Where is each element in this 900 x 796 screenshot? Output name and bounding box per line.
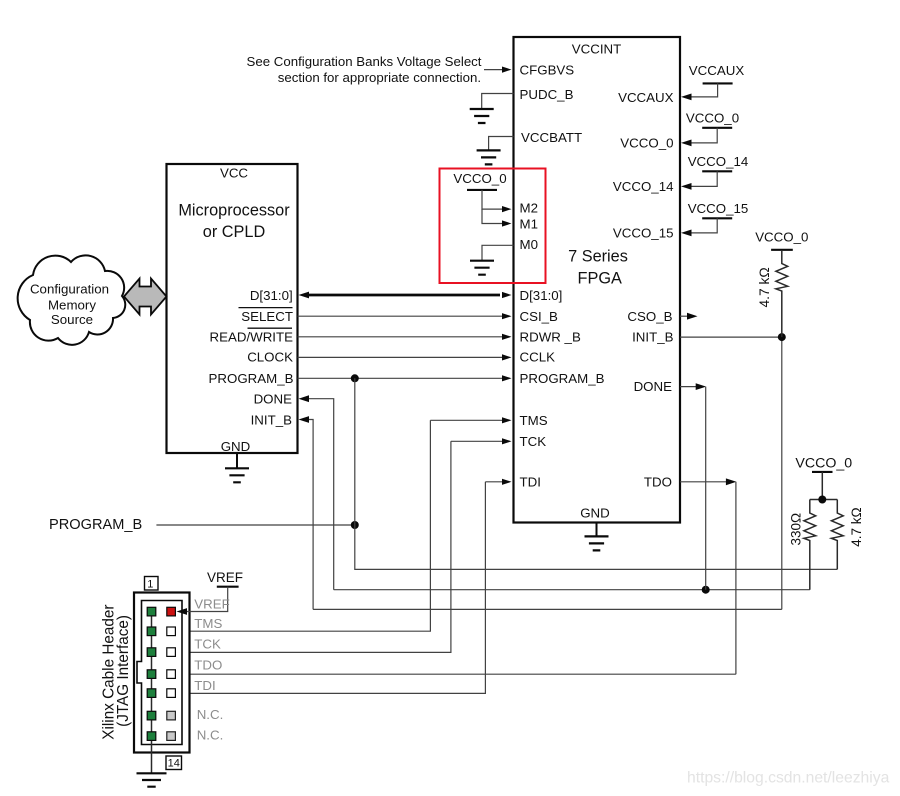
svg-text:RDWR _B: RDWR _B [520,330,581,345]
svg-text:VCCO_0: VCCO_0 [755,230,808,245]
microprocessor U1 [167,164,298,454]
wire PROGRAM_B vertical to 4.7k [355,378,838,569]
svg-text:M1: M1 [520,217,538,232]
svg-text:VCCO_0: VCCO_0 [620,135,673,150]
double arrow cloud to microprocessor [124,279,167,315]
svg-text:Configuration: Configuration [30,282,109,297]
wire CFGBVS arrow [484,67,512,73]
svg-text:VCCAUX: VCCAUX [689,63,745,78]
svg-text:INIT_B: INIT_B [251,412,293,427]
svg-text:VCCO_0: VCCO_0 [795,455,852,471]
pin TDI [167,689,176,698]
resistor R2 330 (DONE pullup) [789,500,816,590]
svg-text:or CPLD: or CPLD [203,223,265,241]
resistor R1 4.7k (INIT_B pullup) [755,230,808,338]
svg-text:Memory: Memory [48,298,96,313]
svg-text:330Ω: 330Ω [789,513,804,546]
svg-text:VCCO_0: VCCO_0 [453,171,506,186]
svg-text:VCCO_15: VCCO_15 [688,201,749,216]
wire ground chain (left pin column) [151,612,153,774]
pin TCK [167,648,176,657]
wire PROGRAM_B external [156,524,354,526]
svg-text:PROGRAM_B: PROGRAM_B [49,517,142,533]
red highlight box (mode pins) [440,169,546,284]
svg-text:VCC: VCC [220,166,248,181]
annotation note [247,54,482,85]
wire M0 to ground [470,245,514,274]
svg-text:CSI_B: CSI_B [520,309,559,324]
svg-text:N.C.: N.C. [197,707,224,722]
svg-text:D[31:0]: D[31:0] [250,288,293,303]
junction INIT_B pullup [778,333,786,341]
svg-text:VCCBATT: VCCBATT [521,130,582,145]
power VCCO_14 [681,154,748,190]
svg-text:SELECT: SELECT [241,309,293,324]
power VCCO_0 (bank 0) [681,110,739,146]
svg-text:D[31:0]: D[31:0] [520,288,563,303]
wire M1 [482,209,512,227]
svg-text:See Configuration Banks Voltag: See Configuration Banks Voltage Select [247,54,482,69]
svg-text:DONE: DONE [254,391,293,406]
svg-text:CFGBVS: CFGBVS [520,62,575,77]
svg-text:FPGA: FPGA [578,269,622,287]
power VCCO_0 (mode pins) [453,171,506,190]
svg-text:1: 1 [147,579,153,591]
svg-text:PROGRAM_B: PROGRAM_B [209,371,294,386]
svg-text:CLOCK: CLOCK [247,350,293,365]
JTAG left pins (GND, green) [147,607,156,740]
wire DONE horizontal to 330 [334,589,810,591]
ground (JTAG) [137,773,167,786]
pin TDO [167,670,176,679]
junction PROGRAM_B tap [351,374,359,382]
svg-text:VCCO_14: VCCO_14 [688,154,749,169]
svg-text:TCK: TCK [520,434,547,449]
svg-text:INIT_B: INIT_B [632,330,674,345]
wire DONE (micro side) [299,395,334,589]
svg-text:PROGRAM_B: PROGRAM_B [520,371,605,386]
wire INIT_B (FPGA side) [680,337,782,609]
cloud configuration memory source [18,255,126,344]
svg-text:PUDC_B: PUDC_B [520,87,574,102]
wire TDI [176,479,512,694]
rotated header label [101,604,132,739]
power VCCO_0 (DONE/PROG pullups) [795,455,852,499]
svg-text:TDO: TDO [194,657,222,672]
wire TMS [176,417,512,631]
pin VREF (red) [167,607,176,616]
svg-text:VREF: VREF [207,570,243,585]
svg-text:(JTAG Interface): (JTAG Interface) [115,615,132,727]
wire INIT_B (micro side) [299,416,314,609]
JTAG header J1 [134,593,190,753]
svg-text:section for appropriate connec: section for appropriate connection. [278,70,481,85]
svg-text:14: 14 [168,758,180,770]
svg-text:TDI: TDI [520,475,541,490]
wire CSO_B output arrow [680,313,698,320]
svg-text:N.C.: N.C. [197,728,224,743]
wire DONE (FPGA side) [680,383,706,590]
wire PROGRAM_B [298,375,512,381]
junction DONE net [702,586,710,594]
junction PROGRAM_B external [351,521,359,529]
svg-text:VCCINT: VCCINT [572,42,622,57]
wire INIT_B horizontal [313,608,782,610]
pin NC1 (gray) [167,711,176,720]
7 Series FPGA U2 [514,37,681,523]
svg-text:VCCAUX: VCCAUX [618,90,674,105]
wire PUDC_B to ground [470,94,514,124]
svg-text:M0: M0 [520,237,538,252]
svg-text:4.7 kΩ: 4.7 kΩ [849,507,864,546]
svg-text:Source: Source [51,312,93,327]
wire TDO (FPGA side) [176,478,736,677]
wire CLOCK to CCLK [298,354,512,360]
svg-text:TDI: TDI [194,678,215,693]
resistor R3 4.7k (PROGRAM_B pullup) [831,500,864,570]
pin 14 index box [166,756,182,770]
svg-text:GND: GND [580,505,610,520]
svg-text:https://blog.csdn.net/leezhiya: https://blog.csdn.net/leezhiya [687,770,890,787]
power VCCAUX [681,63,744,100]
svg-text:GND: GND [221,439,251,454]
pin TMS [167,627,176,636]
svg-text:TDO: TDO [644,475,672,490]
wire M2 [482,190,512,212]
svg-text:M2: M2 [520,200,538,215]
svg-text:READ/WRITE: READ/WRITE [210,329,294,344]
svg-text:4.7 kΩ: 4.7 kΩ [757,267,772,307]
ground (FPGA) [585,523,609,551]
wire TCK [176,438,512,652]
svg-text:CSO_B: CSO_B [627,309,672,324]
ground (microprocessor) [225,453,249,482]
pin 1 index box [145,577,159,591]
svg-text:VCCO_0: VCCO_0 [686,110,739,125]
svg-text:TMS: TMS [520,413,548,428]
svg-text:VREF: VREF [194,597,229,612]
wire SELECT to CSI_B [298,313,512,319]
svg-text:Microprocessor: Microprocessor [178,201,290,219]
svg-text:TCK: TCK [194,637,221,652]
svg-text:TMS: TMS [194,616,222,631]
svg-text:CCLK: CCLK [520,350,556,365]
junction pullup pair [818,496,826,504]
wire READ/WRITE to RDWR_B [298,334,512,340]
bus D[31:0] bidirectional [299,292,512,299]
pin NC2 (gray) [167,732,176,741]
power VREF [177,570,244,615]
svg-text:VCCO_14: VCCO_14 [613,179,674,194]
power VCCO_15 [681,201,748,236]
svg-text:VCCO_15: VCCO_15 [613,225,674,240]
svg-text:7 Series: 7 Series [568,248,628,266]
wire VCCBATT to ground [477,137,514,165]
svg-text:DONE: DONE [634,379,673,394]
